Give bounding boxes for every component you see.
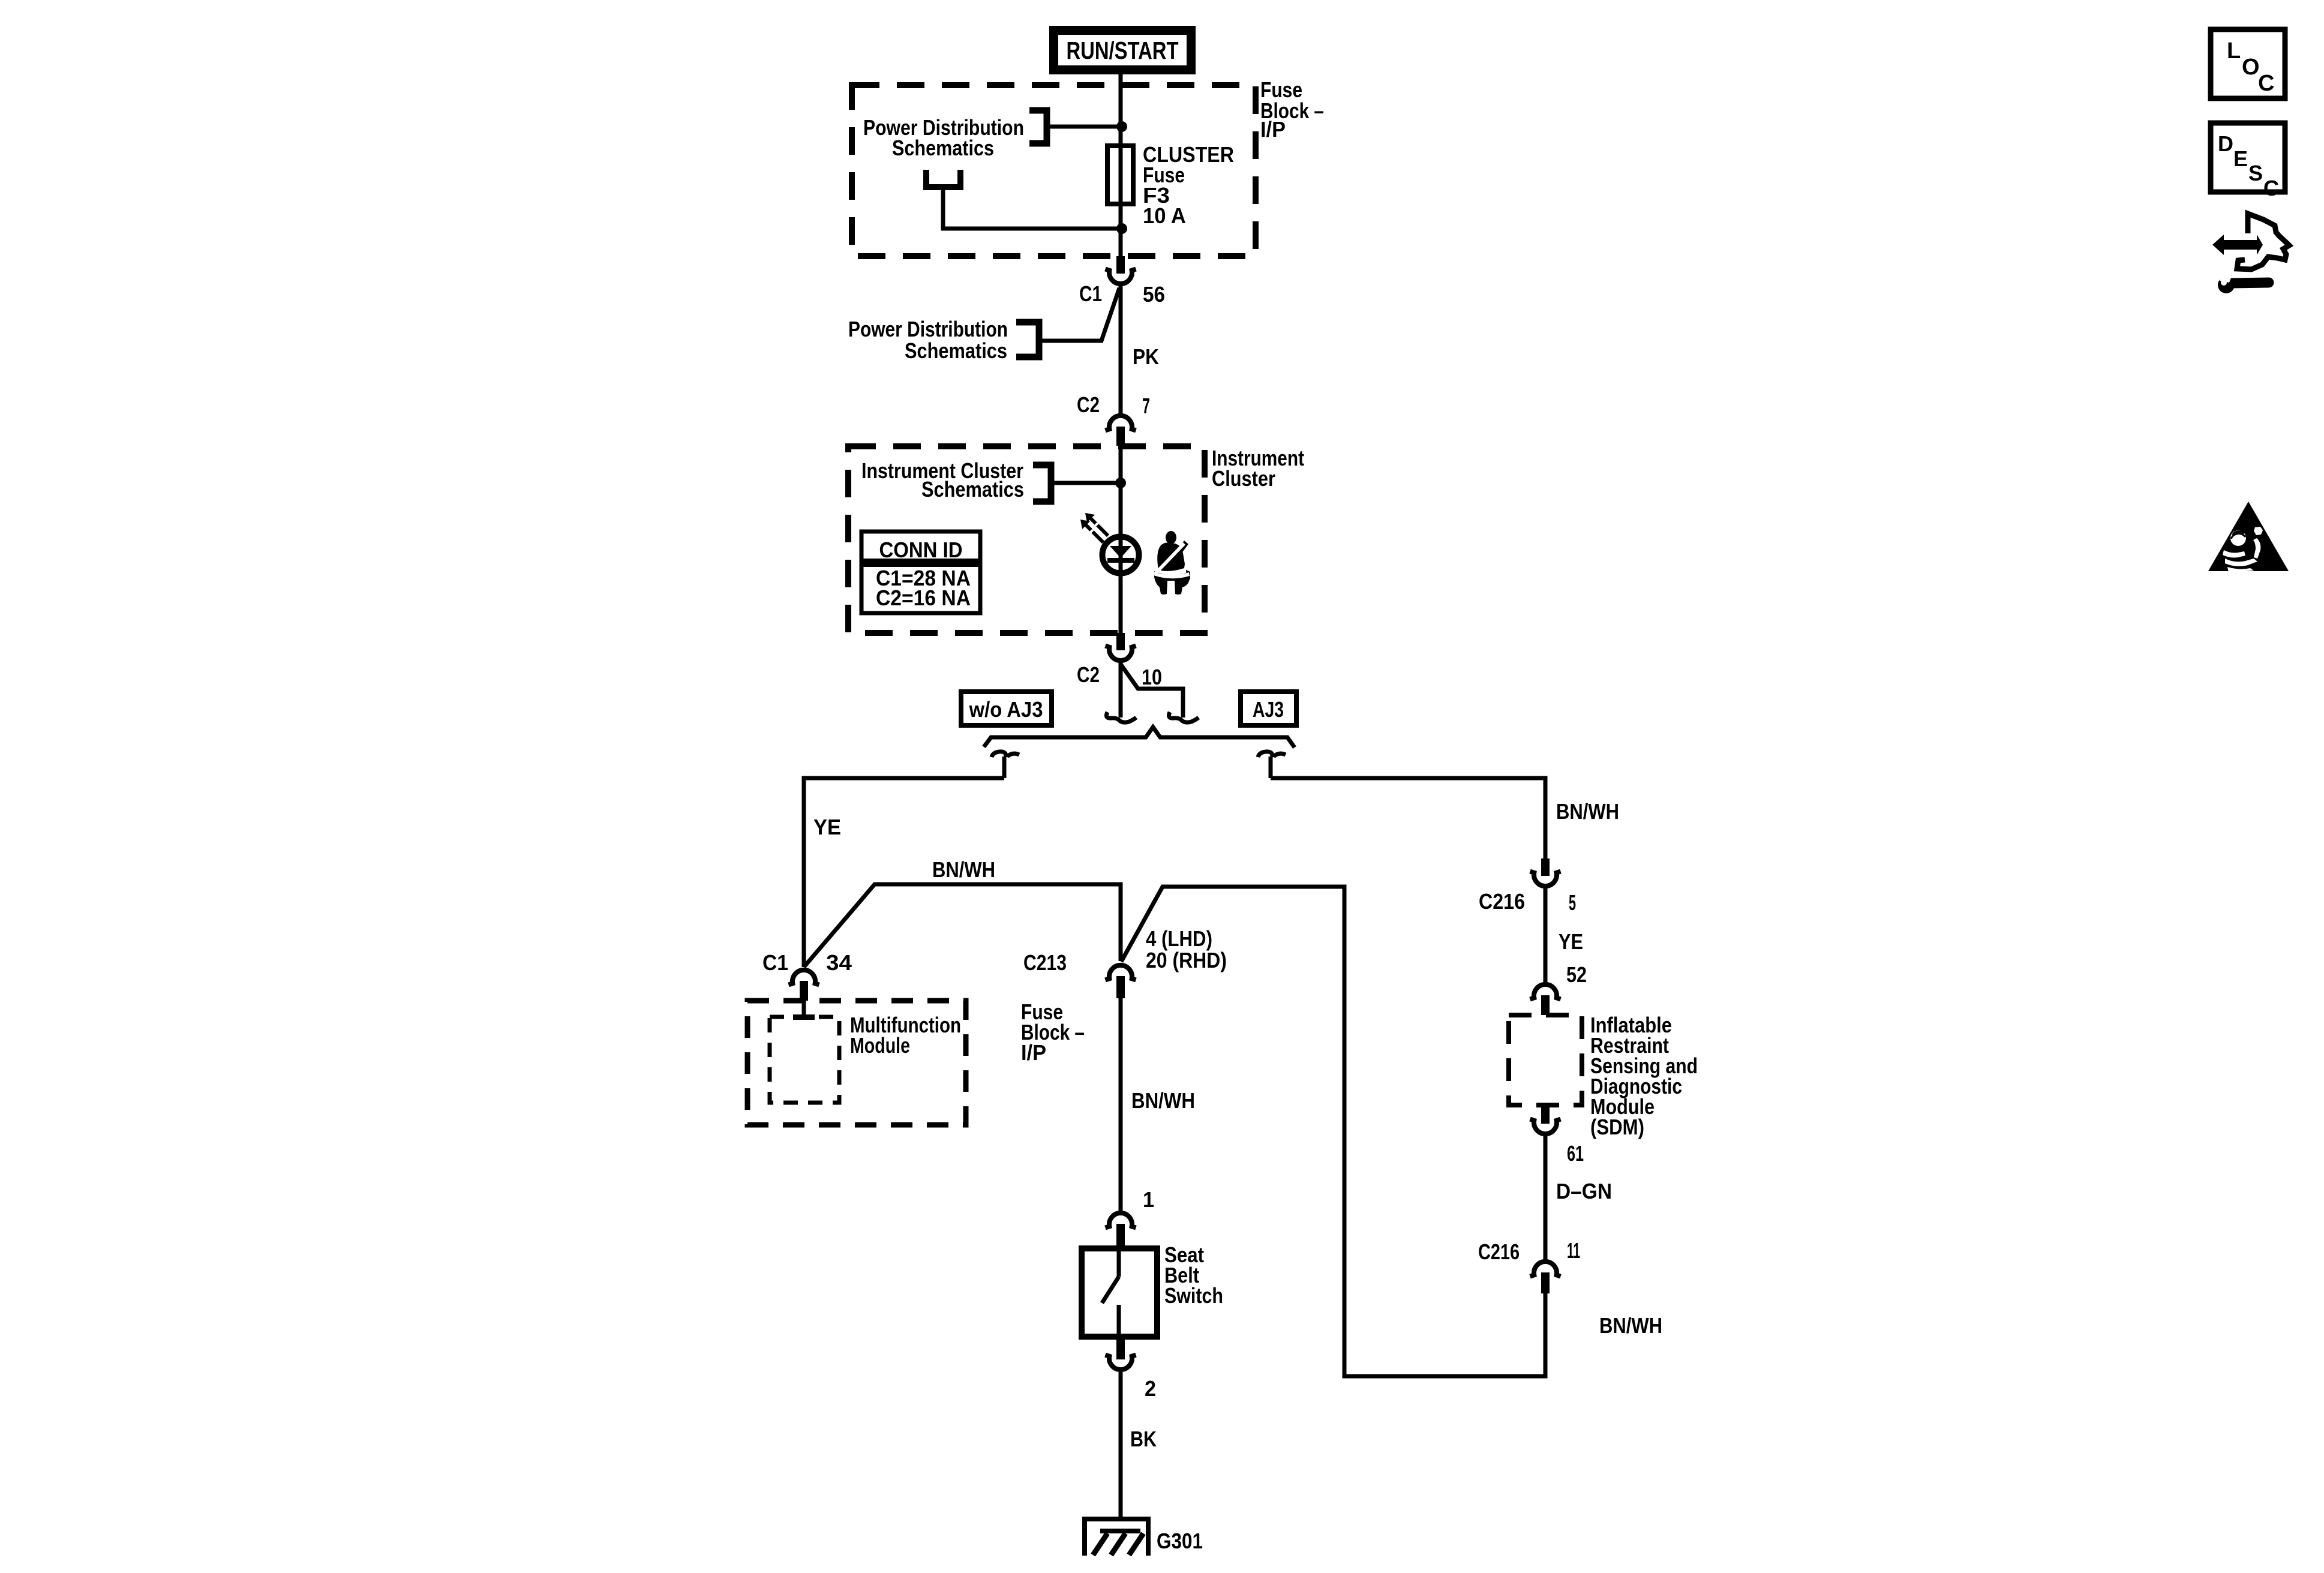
bracket reference symbol (power distribution, inside fuse block) xyxy=(1029,110,1047,143)
connector C2 pin 10 terminal stub xyxy=(1116,633,1125,650)
svg-text:20 (RHD): 20 (RHD) xyxy=(1146,948,1227,972)
pigtail left xyxy=(1106,663,1136,722)
connector switch pin 2 cup xyxy=(1106,1355,1136,1370)
svg-text:w/o AJ3: w/o AJ3 xyxy=(969,697,1043,722)
pigtail below brace right xyxy=(1258,752,1286,778)
label Power Distribution Schematics (upper) xyxy=(848,317,1008,363)
switch contact lower xyxy=(1117,1305,1121,1337)
wire bracket to trunk xyxy=(1051,481,1118,485)
wire right branch from brace xyxy=(1271,778,1545,858)
svg-text:C2: C2 xyxy=(1077,392,1100,417)
label Power Distribution Schematics (inside fuse block, first) xyxy=(863,115,1024,160)
label Fuse Block - I/P (lower) xyxy=(1021,999,1085,1065)
wire stub into multifunction module xyxy=(802,1001,806,1015)
multifunction module terminal bar xyxy=(793,1014,815,1020)
wire bracket to trunk xyxy=(1047,125,1119,129)
connector C2 pin 7 dome xyxy=(1106,416,1136,431)
wire trunk through fuse block xyxy=(1119,85,1123,256)
svg-text:C1: C1 xyxy=(1079,281,1102,306)
multifunction module dashed box xyxy=(770,1017,839,1103)
svg-text:D: D xyxy=(2218,131,2233,156)
svg-text:10: 10 xyxy=(1142,665,1162,689)
fuse block I/P dashed box (lower) xyxy=(747,1001,966,1125)
option split brace xyxy=(984,727,1295,748)
svg-text:S: S xyxy=(2248,161,2263,185)
svg-text:BN/WH: BN/WH xyxy=(1131,1088,1195,1113)
svg-text:YE: YE xyxy=(1559,929,1583,954)
bracket cup symbol below label xyxy=(926,170,960,187)
icon airbag warning triangle xyxy=(2208,502,2289,572)
svg-text:34: 34 xyxy=(826,950,852,975)
connector switch pin 2 terminal stub xyxy=(1116,1337,1125,1359)
bracket reference symbol (power distribution, lower) xyxy=(1016,322,1039,357)
connector SDM pin 52 terminal stub xyxy=(1541,995,1550,1015)
svg-text:BN/WH: BN/WH xyxy=(1599,1313,1662,1338)
svg-text:Switch: Switch xyxy=(1164,1283,1223,1308)
svg-text:C2=16 NA: C2=16 NA xyxy=(876,586,971,610)
svg-text:Power Distribution: Power Distribution xyxy=(848,317,1008,341)
svg-text:C: C xyxy=(2263,176,2279,200)
connector C1 pin 56 cup xyxy=(1106,269,1136,284)
ground G301 symbol xyxy=(1085,1519,1148,1556)
svg-text:2: 2 xyxy=(1145,1376,1156,1401)
svg-text:7: 7 xyxy=(1142,394,1150,418)
LED light arrows xyxy=(1080,513,1108,542)
svg-text:52: 52 xyxy=(1566,962,1587,987)
wire left branch from brace xyxy=(804,778,1004,967)
connector C213 terminal stub xyxy=(1116,976,1125,998)
icon remove/replace (arrow + panel + wrench) xyxy=(2212,214,2289,293)
connector C216 pin 5 cup xyxy=(1530,872,1561,887)
svg-text:C216: C216 xyxy=(1479,889,1525,914)
seat belt telltale icon xyxy=(1153,531,1190,595)
pigtail right xyxy=(1169,712,1199,722)
svg-text:C: C xyxy=(2258,71,2274,96)
option box w/o AJ3 xyxy=(961,692,1052,725)
seat belt switch box xyxy=(1082,1248,1157,1337)
svg-text:10 A: 10 A xyxy=(1143,203,1186,228)
svg-text:YE: YE xyxy=(813,815,841,839)
connector C1 pin 56 terminal stub xyxy=(1116,256,1125,274)
label CLUSTER Fuse F3 10 A xyxy=(1143,142,1234,228)
wire diagonal C1 34 to BN/WH run xyxy=(804,884,1121,967)
svg-text:BK: BK xyxy=(1130,1427,1157,1451)
switch blade xyxy=(1102,1277,1119,1303)
node RUN/START (power feed box) xyxy=(1054,31,1191,70)
svg-text:RUN/START: RUN/START xyxy=(1067,37,1179,64)
svg-text:D–GN: D–GN xyxy=(1556,1179,1612,1203)
label Fuse Block - I/P (top) xyxy=(1260,77,1324,142)
svg-text:5: 5 xyxy=(1569,890,1576,915)
fuse block I/P dashed box xyxy=(852,85,1256,256)
svg-text:Schematics: Schematics xyxy=(921,477,1024,502)
connector SDM pin 52 dome xyxy=(1530,984,1561,999)
svg-text:E: E xyxy=(2233,146,2248,171)
connector C216 pin 11 terminal stub xyxy=(1541,1272,1550,1293)
svg-text:C1: C1 xyxy=(762,950,788,975)
wire BN/WH down to seat belt switch xyxy=(1119,998,1123,1211)
label Instrument Cluster (outside box) xyxy=(1212,446,1304,491)
wire D-GN segment xyxy=(1544,1136,1548,1260)
svg-text:O: O xyxy=(2242,55,2260,80)
connector C216 pin 5 terminal stub xyxy=(1541,858,1550,876)
connector SDM pin 61 terminal stub xyxy=(1541,1105,1550,1124)
svg-text:11: 11 xyxy=(1567,1238,1580,1263)
icon LOC box xyxy=(2211,29,2285,98)
svg-text:56: 56 xyxy=(1143,282,1165,307)
svg-text:I/P: I/P xyxy=(1260,117,1286,142)
svg-text:G301: G301 xyxy=(1157,1529,1203,1553)
svg-text:Module: Module xyxy=(850,1033,910,1058)
svg-text:C216: C216 xyxy=(1478,1239,1520,1264)
connector C213 dome xyxy=(1106,965,1136,980)
connector C1 pin 34 terminal stub xyxy=(800,981,808,1001)
svg-text:CONN ID: CONN ID xyxy=(879,538,963,562)
svg-text:(SDM): (SDM) xyxy=(1590,1115,1644,1139)
wire BK segment xyxy=(1119,1372,1123,1519)
pigtail below brace left xyxy=(992,752,1019,778)
svg-text:AJ3: AJ3 xyxy=(1253,697,1284,722)
label Inflatable Restraint Sensing and Diagnostic Module (SDM) xyxy=(1590,1013,1698,1139)
svg-text:61: 61 xyxy=(1567,1141,1584,1166)
wire bracket to C1 pin xyxy=(1039,288,1119,341)
connector C216 pin 11 dome xyxy=(1530,1262,1561,1277)
wire RUN/START to fuse block xyxy=(1119,74,1123,88)
svg-text:4 (LHD): 4 (LHD) xyxy=(1146,926,1212,951)
label Instrument Cluster Schematics xyxy=(861,458,1024,502)
indicator LED lamp symbol xyxy=(1103,537,1139,574)
CONN ID table box xyxy=(861,532,980,613)
svg-text:L: L xyxy=(2227,38,2241,64)
icon DESC box xyxy=(2211,123,2285,200)
svg-text:BN/WH: BN/WH xyxy=(932,857,995,882)
svg-text:Schematics: Schematics xyxy=(892,136,994,160)
connector switch pin 1 dome xyxy=(1106,1213,1136,1228)
SDM dashed box xyxy=(1509,1015,1582,1105)
svg-text:1: 1 xyxy=(1143,1187,1154,1212)
svg-text:C2: C2 xyxy=(1077,662,1100,687)
switch contact upper xyxy=(1117,1248,1121,1277)
connector C2 pin 10 cup xyxy=(1106,646,1136,661)
label Multifunction Module xyxy=(850,1013,961,1058)
connector C1 pin 34 dome xyxy=(789,970,819,985)
wire YE segment right xyxy=(1544,888,1548,983)
connector switch pin 1 terminal stub xyxy=(1116,1224,1125,1248)
option box AJ3 xyxy=(1241,692,1296,725)
instrument cluster dashed box xyxy=(848,446,1205,633)
svg-text:PK: PK xyxy=(1133,344,1159,369)
svg-text:I/P: I/P xyxy=(1021,1040,1046,1065)
connector SDM pin 61 cup xyxy=(1530,1119,1561,1134)
junction dot instrument cluster xyxy=(1115,478,1126,488)
junction dot upper xyxy=(1116,121,1127,132)
junction dot lower xyxy=(1116,223,1127,234)
svg-text:BN/WH: BN/WH xyxy=(1556,799,1619,824)
wire bracket2 to lower junction xyxy=(943,187,1119,229)
wire trunk inside instrument cluster xyxy=(1119,446,1123,633)
connector C2 pin 7 terminal stub xyxy=(1116,427,1125,446)
svg-text:Schematics: Schematics xyxy=(905,338,1007,363)
svg-text:Cluster: Cluster xyxy=(1212,466,1275,491)
bracket reference symbol (instrument cluster schematics) xyxy=(1033,465,1051,502)
fuse CLUSTER F3 10A symbol xyxy=(1107,146,1133,204)
label Seat Belt Switch xyxy=(1164,1242,1223,1308)
svg-text:C213: C213 xyxy=(1023,950,1067,975)
wire diagonal C213 to SDM return run xyxy=(1121,887,1545,1376)
wire split diagonal to right stub xyxy=(1121,664,1183,718)
wire PK segment xyxy=(1119,286,1123,414)
